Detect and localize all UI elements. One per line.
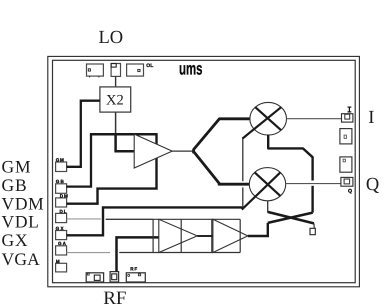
svg-text:VGA: VGA: [2, 249, 41, 269]
mixer bottom: [242, 168, 286, 210]
pad top-right bond pad: [127, 64, 144, 76]
pad V right lower: [340, 157, 352, 172]
svg-text:GA: GA: [58, 241, 67, 246]
wire GM to X2 input: [67, 101, 100, 167]
termination pad: [310, 228, 315, 234]
wire GB riser: [67, 134, 91, 186]
wire RF interstage: [197, 235, 213, 237]
svg-text:VDL: VDL: [2, 212, 40, 232]
svg-text:DL: DL: [60, 209, 67, 214]
frequency doubler X2: [100, 87, 131, 112]
pad V right upper: [340, 129, 352, 144]
svg-text:VDM: VDM: [2, 193, 45, 213]
pin label I: [348, 107, 352, 112]
svg-text:GX: GX: [2, 230, 29, 250]
svg-text:ums: ums: [179, 59, 203, 79]
wire VDL to RF amp: [67, 218, 101, 220]
wire Q output: [286, 183, 341, 185]
RF amplifier block frame: [106, 219, 240, 252]
svg-text:GB: GB: [2, 175, 28, 195]
svg-text:RF: RF: [103, 288, 126, 307]
chip outline inner: [53, 60, 356, 282]
wire bottom mixer to coupler: [267, 201, 269, 213]
op-amp LO buffer: [134, 134, 172, 168]
pad DM: [56, 198, 67, 207]
pad I output: [342, 114, 353, 122]
pad RF feed: [110, 272, 119, 282]
LO splitter chevron: [194, 119, 250, 184]
pad GB: [56, 184, 67, 194]
svg-text:GB: GB: [56, 179, 65, 184]
chip outline outer: [48, 56, 360, 286]
pad LO input: [111, 64, 120, 77]
wire mixer bias riser: [242, 139, 244, 208]
wire RF amp out: [248, 223, 268, 236]
wire amp to splitter: [172, 150, 193, 152]
wire RF input riser: [117, 237, 159, 271]
wire DM feedback loop: [67, 133, 157, 204]
wire I output: [287, 118, 342, 120]
wire bias bus horizontal: [90, 133, 157, 136]
svg-text:X2: X2: [106, 93, 124, 109]
pad DL: [56, 213, 67, 222]
wire GA to RF amp: [67, 252, 111, 254]
pad GM: [56, 162, 67, 172]
wire LO pad to X2: [115, 76, 117, 87]
mixer top: [242, 102, 286, 138]
svg-text:GX: GX: [56, 226, 65, 231]
svg-text:LO: LO: [99, 28, 124, 48]
svg-text:OL: OL: [146, 63, 153, 69]
pad M: [56, 263, 67, 272]
svg-text:Q: Q: [366, 175, 380, 195]
wire X2 output: [115, 112, 117, 133]
svg-text:RF: RF: [130, 267, 137, 272]
op-amp RF stage 1: [159, 219, 197, 252]
wire X2 output to LO amp: [116, 133, 135, 151]
wire coupler to top mixer: [268, 135, 312, 213]
pad Q output: [341, 177, 353, 186]
svg-text:Q: Q: [348, 189, 352, 195]
svg-text:M: M: [56, 259, 60, 264]
svg-text:GM: GM: [56, 157, 64, 162]
svg-text:DM: DM: [60, 193, 68, 198]
svg-text:I: I: [368, 108, 374, 128]
pad top-left decorative bond pad: [87, 64, 104, 77]
coupler cross: [268, 212, 314, 224]
wire GX bias: [67, 207, 243, 235]
pad RF bond right: [126, 273, 145, 282]
pad GX: [56, 231, 67, 240]
termination stub: [313, 223, 315, 228]
wire VDL cont: [106, 218, 153, 220]
svg-text:GM: GM: [2, 157, 32, 177]
op-amp RF stage 2: [213, 219, 248, 252]
pad RF bottom-left bond: [86, 273, 103, 282]
pad GA: [56, 246, 67, 255]
